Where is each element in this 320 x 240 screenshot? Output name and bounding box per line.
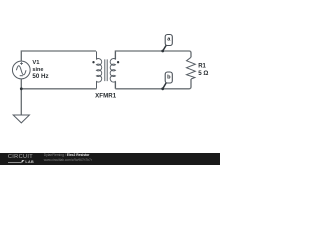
transformer XFMR1 secondary winding <box>110 51 115 88</box>
junction node a <box>161 50 164 53</box>
wire bottom-left rail (junction to XFMR1 primary bottom) <box>21 88 96 90</box>
svg-text:XFMR1: XFMR1 <box>95 93 117 100</box>
svg-text:5 Ω: 5 Ω <box>198 70 208 77</box>
XFMR1 core <box>105 59 107 81</box>
XFMR1 secondary polarity dot <box>117 61 119 63</box>
svg-text:b: b <box>167 75 171 81</box>
CircuitLab logo <box>8 155 40 160</box>
node a flag <box>165 35 172 46</box>
wire V1 bottom to junction <box>20 79 22 89</box>
svg-text:R1: R1 <box>198 64 206 70</box>
watermark credit text <box>44 154 90 157</box>
ground <box>13 115 29 123</box>
node b flag <box>165 72 172 83</box>
resistor R1 <box>187 57 196 79</box>
junction node b <box>161 87 164 90</box>
wire top-right rail (XFMR1 secondary to R1) <box>115 51 191 59</box>
wire top-left rail (V1 top to XFMR1 primary) <box>21 51 96 61</box>
svg-text:50 Hz: 50 Hz <box>32 73 48 80</box>
voltage source V1 <box>12 61 30 79</box>
node a flag connector <box>163 45 167 51</box>
node b flag connector <box>163 83 167 89</box>
XFMR1 primary polarity dot <box>92 61 94 63</box>
wire ground stem <box>20 89 22 115</box>
wire bottom-right rail (XFMR1 secondary bottom to R1 bottom) <box>115 79 191 89</box>
svg-text:V1: V1 <box>32 60 40 66</box>
watermark url <box>44 159 92 162</box>
svg-text:sine: sine <box>32 67 43 73</box>
watermark bar <box>0 153 220 166</box>
junction V1/ground <box>20 87 23 90</box>
transformer XFMR1 primary winding <box>97 51 102 88</box>
